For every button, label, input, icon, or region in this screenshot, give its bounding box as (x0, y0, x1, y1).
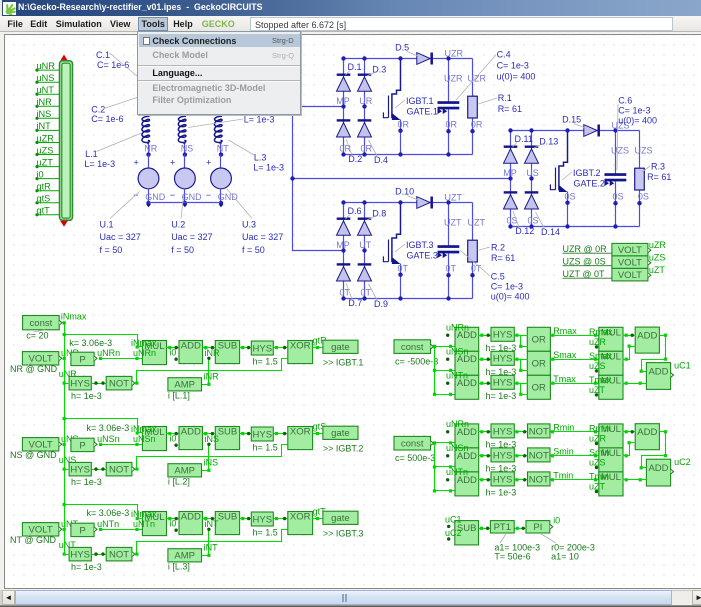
svg-text:f = 50: f = 50 (242, 245, 265, 255)
block ADD (sum2) (646, 459, 670, 486)
svg-text:u(0)= 400: u(0)= 400 (618, 115, 657, 125)
diode D.7 (337, 264, 351, 281)
diode D.8 (358, 219, 372, 236)
svg-text:0T: 0T (398, 263, 409, 273)
svg-text:OR: OR (532, 359, 546, 370)
svg-text:D.2: D.2 (348, 154, 362, 164)
block VOLT NR (22, 352, 58, 365)
block ADD (sum1) (635, 327, 659, 353)
svg-text:C= 1e-6: C= 1e-6 (91, 114, 123, 124)
block XOR (288, 426, 313, 449)
wire: cell3 branch2 (D.8/D.9) (364, 203, 366, 299)
wire: cell3 bottom rail (344, 298, 473, 300)
svg-text:gate: gate (331, 513, 350, 524)
svg-text:UZR: UZR (444, 74, 463, 84)
svg-text:C.4: C.4 (497, 50, 511, 60)
svg-text:AMP: AMP (174, 380, 195, 391)
svg-text:XOR: XOR (290, 340, 311, 351)
svg-text:NOT: NOT (109, 379, 129, 390)
diode D.10 (series) (417, 197, 432, 209)
scope input wire uZT (37, 166, 60, 168)
svg-text:uNR: uNR (37, 61, 56, 71)
svg-text:US: US (526, 168, 539, 178)
wire iNmax feed (65, 505, 143, 519)
scope input wire uNT (37, 93, 60, 95)
svg-text:C.6: C.6 (618, 95, 632, 105)
svg-text:HYS: HYS (493, 474, 513, 485)
svg-text:0R: 0R (471, 119, 483, 129)
wire uN to HYS (65, 530, 70, 555)
svg-text:GND: GND (182, 192, 203, 202)
svg-text:D.7: D.7 (348, 298, 362, 308)
diode D.11 (504, 147, 518, 164)
svg-text:h= 1e-3: h= 1e-3 (71, 562, 102, 572)
block HYS (h=1e-3) (69, 462, 91, 476)
svg-text:UZR @ 0R: UZR @ 0R (563, 244, 608, 254)
wire ADD to HYS (479, 479, 491, 481)
wire HYS to NOT (92, 469, 107, 471)
svg-text:XOR: XOR (290, 511, 311, 522)
svg-text:uNSn: uNSn (133, 434, 156, 444)
wire SUB to HYS (240, 518, 252, 520)
svg-text:i0: i0 (553, 515, 560, 525)
wire const bus (431, 444, 435, 491)
wire: source common rail (149, 202, 221, 204)
svg-text:NS: NS (181, 143, 194, 153)
svg-text:UZR: UZR (445, 48, 464, 58)
svg-text:>> IGBT.2: >> IGBT.2 (323, 444, 364, 454)
wire MUL out to ADD (167, 433, 179, 435)
block const c=20 (23, 316, 60, 330)
svg-text:UZR: UZR (468, 74, 487, 84)
svg-text:GATE.2: GATE.2 (574, 178, 605, 188)
block AMP i[L.2] (168, 464, 202, 477)
diode D.12 (504, 192, 518, 209)
svg-text:PT1: PT1 (494, 522, 511, 533)
wire MUL1 to ADD (623, 335, 636, 337)
svg-text:Smax: Smax (589, 351, 613, 361)
block P (71, 352, 94, 365)
svg-text:NOT: NOT (529, 426, 549, 437)
wire ADD1 out down (642, 432, 666, 468)
svg-text:NOT: NOT (109, 465, 129, 476)
block gate IGBT.2 (323, 426, 358, 439)
svg-text:uC1: uC1 (445, 514, 462, 524)
block VOLT NS (22, 438, 58, 451)
svg-text:L= 1e-3: L= 1e-3 (244, 114, 275, 124)
svg-text:>> IGBT.3: >> IGBT.3 (323, 529, 364, 539)
svg-text:Rmax: Rmax (553, 326, 577, 336)
svg-text:HYS: HYS (253, 429, 273, 440)
wire HYS to OR (515, 335, 528, 337)
wire const to ADD in2 (435, 394, 455, 396)
wire MUL2 to ADD in2 (623, 443, 636, 456)
svg-text:UZT: UZT (444, 218, 462, 228)
block NOT (528, 424, 551, 438)
wire uNTn to MUL (101, 529, 143, 531)
wire ADD out to SUB (203, 433, 216, 435)
svg-text:h= 1.5: h= 1.5 (253, 357, 278, 367)
wire MUL1 to ADD (623, 431, 636, 433)
tools dropdown menu (137, 31, 301, 115)
diode D.13 (525, 147, 539, 164)
svg-text:k= 3.06e-3: k= 3.06e-3 (87, 423, 130, 433)
svg-text:ADD: ADD (648, 366, 668, 377)
svg-text:qtR: qtR (37, 182, 52, 192)
svg-text:+: + (206, 158, 211, 168)
wire: cell2 branch2 (D.13/D.14) (531, 131, 533, 227)
svg-text:uNT: uNT (37, 85, 55, 95)
svg-text:uC2: uC2 (445, 528, 462, 538)
svg-text:uZT: uZT (589, 481, 606, 491)
svg-text:k= 3.06e-3: k= 3.06e-3 (69, 338, 112, 348)
block MUL (Smax x uZ) (599, 351, 623, 375)
IGBT IGBT.3 (383, 203, 400, 263)
svg-text:iNR: iNR (37, 97, 53, 107)
svg-text:gate: gate (331, 342, 350, 353)
svg-text:P: P (79, 525, 85, 536)
wire HYS to XOR (274, 347, 288, 349)
scope input wire i0 (37, 178, 60, 180)
svg-text:MP: MP (336, 240, 350, 250)
svg-text:0S: 0S (528, 216, 539, 226)
svg-text:L.1: L.1 (85, 149, 98, 159)
voltage source U.3 (220, 155, 222, 169)
wire ADD to HYS (479, 455, 491, 457)
wire iNmax bus (63, 323, 65, 555)
svg-text:NOT: NOT (529, 474, 549, 485)
svg-text:uZS: uZS (649, 253, 666, 263)
wire SUB to HYS (240, 433, 252, 435)
wire ADD to HYS (479, 335, 491, 337)
block const (c= 500e-3) (394, 436, 431, 450)
wire XOR to gate (313, 433, 323, 435)
svg-text:f = 50: f = 50 (171, 245, 194, 255)
block PI (526, 521, 550, 534)
block OR (527, 375, 550, 399)
block MUL (Rmin x uZ) (599, 424, 623, 448)
svg-text:D.10: D.10 (395, 186, 414, 196)
block OR (527, 351, 550, 375)
block ADD (+i0) (179, 511, 203, 534)
svg-text:iNmax: iNmax (131, 509, 157, 519)
block ADD (sum1) (635, 424, 659, 450)
svg-text:U.1: U.1 (100, 219, 114, 229)
svg-text:R.1: R.1 (498, 93, 512, 103)
svg-text:i0: i0 (169, 518, 176, 528)
window title bar (0, 0, 701, 16)
svg-text:0S: 0S (507, 216, 518, 226)
svg-text:VOLT: VOLT (618, 245, 642, 256)
block HYS h=1e-3 (491, 424, 514, 438)
wire const to ADD in2 (435, 346, 455, 348)
wire: MP bus vertical (293, 107, 344, 251)
svg-text:HYS: HYS (70, 465, 90, 476)
svg-text:0T: 0T (446, 263, 457, 273)
wire const bus (431, 347, 435, 395)
block NOT (106, 376, 132, 390)
ground (219, 201, 223, 205)
svg-text:UZT: UZT (445, 192, 463, 202)
svg-text:HYS: HYS (253, 514, 273, 525)
wire NOT out to XOR in2 (135, 359, 288, 384)
capacitor branch (448, 203, 450, 246)
svg-text:i0: i0 (169, 433, 176, 443)
svg-text:uNTn: uNTn (446, 370, 468, 380)
svg-text:0S: 0S (638, 191, 649, 201)
block VOLT NT (22, 523, 58, 536)
scope input wire iNT (37, 129, 60, 131)
svg-text:Tmax: Tmax (553, 374, 576, 384)
svg-text:IGBT.2: IGBT.2 (573, 168, 601, 178)
block HYS (h=1.5) (251, 427, 273, 441)
svg-text:D.3: D.3 (372, 64, 386, 74)
svg-text:D.14: D.14 (541, 227, 560, 237)
svg-text:k= 3.06e-3: k= 3.06e-3 (87, 508, 130, 518)
wire HYS to OR (515, 359, 528, 361)
svg-text:uC2: uC2 (674, 457, 691, 467)
wire uNSn to MUL (101, 444, 143, 446)
wire uNRn to MUL (101, 358, 143, 360)
svg-text:IGBT.3: IGBT.3 (406, 240, 434, 250)
wire: cell2 branch1 (D.11/D.12) (510, 131, 512, 227)
svg-text:gate: gate (331, 428, 350, 439)
svg-text:uNTn: uNTn (97, 519, 119, 529)
svg-text:f = 50: f = 50 (100, 245, 123, 255)
svg-text:D.4: D.4 (374, 155, 388, 165)
svg-text:c= -500e-3: c= -500e-3 (395, 357, 438, 367)
svg-text:Tmin: Tmin (589, 471, 609, 481)
svg-text:i0: i0 (37, 169, 44, 179)
svg-text:h= 1e-3: h= 1e-3 (486, 488, 517, 498)
block HYS h=1e-3 (491, 351, 514, 365)
block AMP i[L.3] (168, 549, 202, 562)
svg-text:OR: OR (532, 335, 546, 346)
block SUB (-iN) (215, 426, 239, 449)
svg-text:AMP: AMP (174, 466, 195, 477)
svg-text:h= 1e-3: h= 1e-3 (71, 477, 102, 487)
svg-text:uNTn: uNTn (446, 467, 468, 477)
svg-text:SUB: SUB (218, 511, 238, 522)
svg-text:NR: NR (144, 143, 157, 153)
ground (183, 201, 187, 205)
svg-text:HYS: HYS (493, 450, 513, 461)
wire MUL out to ADD (167, 347, 179, 349)
inductor L.3 (214, 116, 222, 144)
svg-text:P: P (79, 354, 85, 365)
wire NOT out to XOR in2 (135, 445, 288, 470)
svg-text:0T: 0T (361, 288, 372, 298)
svg-text:c= 500e-3: c= 500e-3 (395, 453, 435, 463)
block ADD (uNTn) (455, 472, 479, 496)
svg-text:a1= 10: a1= 10 (551, 551, 579, 561)
svg-text:+: + (170, 158, 175, 168)
block MUL (142, 341, 166, 365)
svg-text:u(0)= 400: u(0)= 400 (497, 72, 536, 82)
wire MUL2 to ADD in2 (623, 347, 636, 360)
scope input wire qtR (37, 190, 60, 192)
wire HYS to NOT (515, 455, 528, 457)
svg-text:C.5: C.5 (491, 271, 505, 281)
svg-text:Smax: Smax (553, 350, 577, 360)
wire const to ADD in2 (435, 466, 455, 468)
svg-text:C.1: C.1 (96, 50, 110, 60)
svg-text:uZS: uZS (37, 145, 54, 155)
wire iNS feedback (202, 445, 209, 471)
wire Rmin to MUL (551, 431, 599, 433)
svg-text:const: const (401, 439, 424, 450)
svg-text:NOT: NOT (529, 450, 549, 461)
inductor L.1 (142, 116, 150, 144)
simulation status field (250, 17, 673, 31)
wire XOR to gate (313, 518, 323, 520)
svg-text:MP: MP (336, 96, 350, 106)
svg-text:P: P (79, 440, 85, 451)
wire MUL3 to ADD2 (623, 479, 647, 481)
diode D.2 (337, 120, 351, 137)
svg-text:qtS: qtS (37, 194, 51, 204)
wire ADD to HYS (479, 383, 491, 385)
block const (c= -500e-3) (394, 340, 431, 354)
svg-text:UZT: UZT (468, 218, 486, 228)
svg-text:iNR: iNR (204, 372, 219, 382)
svg-text:uZT: uZT (649, 265, 666, 275)
svg-text:Uac = 327: Uac = 327 (100, 232, 141, 242)
capacitor branch (448, 59, 450, 102)
svg-text:UR: UR (359, 96, 372, 106)
block AMP i[L.1] (168, 378, 202, 391)
svg-text:NOT: NOT (109, 550, 129, 561)
svg-text:uZS: uZS (589, 457, 606, 467)
svg-text:VOLT: VOLT (618, 258, 642, 269)
svg-text:0R: 0R (398, 119, 410, 129)
wire HYS to NOT (515, 431, 528, 433)
wire HYS to XOR (274, 518, 288, 520)
wire: cell3 top rail (344, 202, 473, 204)
capacitor branch (615, 131, 617, 174)
block XOR (288, 511, 313, 534)
block NOT (528, 472, 551, 486)
svg-text:c= 20: c= 20 (26, 331, 48, 341)
block MUL (Tmax x uZ) (599, 375, 623, 399)
svg-text:NT @ GND: NT @ GND (10, 535, 56, 545)
svg-text:C= 1e-3: C= 1e-3 (497, 61, 529, 71)
wire iNR feedback (202, 359, 209, 385)
svg-text:Rmax: Rmax (589, 327, 613, 337)
wire uN to HYS (65, 359, 70, 384)
scope input wire uNR (37, 69, 60, 71)
wire HYS to NOT (92, 554, 107, 556)
block MUL (142, 427, 166, 451)
svg-text:iNT: iNT (37, 121, 52, 131)
scope input wire uZS (37, 154, 60, 156)
diode D.6 (337, 219, 351, 236)
resistor branch (472, 59, 474, 97)
svg-text:uZR: uZR (589, 337, 607, 347)
block gate IGBT.3 (323, 511, 358, 524)
svg-text:uNRn: uNRn (446, 419, 469, 429)
svg-text:D.15: D.15 (562, 114, 581, 124)
block HYS h=1e-3 (491, 448, 514, 462)
block ADD (uNSn) (455, 448, 479, 472)
svg-text:uNSn: uNSn (446, 346, 469, 356)
IGBT IGBT.1 (383, 59, 400, 119)
svg-text:ADD: ADD (637, 427, 657, 438)
scope block SC.1 (60, 55, 68, 61)
wire HYS to NOT (515, 479, 528, 481)
diode D.1 (337, 75, 351, 92)
inductor L.2 (178, 116, 186, 144)
svg-text:T= 50e-6: T= 50e-6 (494, 551, 530, 561)
svg-text:i0: i0 (169, 347, 176, 357)
wire coil to node NS (184, 144, 186, 155)
wire NOT out to XOR in2 (135, 530, 288, 555)
svg-text:ADD: ADD (181, 511, 201, 522)
block gate IGBT.1 (323, 340, 358, 353)
svg-text:uNSn: uNSn (97, 434, 120, 444)
scope input wire iNR (37, 105, 60, 107)
svg-text:Smin: Smin (589, 447, 610, 457)
block HYS h=1e-3 (491, 327, 514, 341)
svg-text:MP: MP (503, 168, 517, 178)
svg-text:i [L.3]: i [L.3] (168, 562, 190, 572)
svg-text:D.12: D.12 (515, 226, 534, 236)
block HYS (h=1.5) (251, 512, 273, 526)
svg-text:Tmax: Tmax (589, 375, 612, 385)
block MUL (Smin x uZ) (599, 448, 623, 472)
wire PT1 to PI (515, 528, 527, 530)
block ADD (sum2) (646, 363, 670, 390)
svg-text:ADD: ADD (648, 463, 668, 474)
svg-text:D.11: D.11 (515, 134, 533, 144)
svg-text:iNmax: iNmax (131, 338, 157, 348)
svg-text:uZS: uZS (589, 361, 606, 371)
svg-text:R= 61: R= 61 (498, 104, 522, 114)
diode D.5 (series) (417, 53, 432, 65)
block HYS h=1e-3 (491, 375, 514, 389)
block XOR (288, 340, 313, 363)
block VOLT (UZT @ 0T) (612, 268, 648, 281)
wire XOR to gate (313, 347, 323, 349)
scope input wire iNS (37, 117, 60, 119)
svg-text:Uac = 327: Uac = 327 (242, 232, 283, 242)
svg-text:C.2: C.2 (91, 104, 105, 114)
svg-text:HYS: HYS (493, 426, 513, 437)
wire iNT feedback (202, 530, 209, 556)
svg-text:uZT: uZT (37, 157, 54, 167)
svg-text:Rmin: Rmin (589, 423, 610, 433)
svg-text:i [L.1]: i [L.1] (168, 391, 190, 401)
wire ADD to HYS (479, 359, 491, 361)
svg-text:XOR: XOR (290, 426, 311, 437)
block ADD (+i0) (179, 426, 203, 449)
svg-text:R= 61: R= 61 (491, 253, 515, 263)
voltage source U.2 (184, 155, 186, 169)
svg-text:C= 1e-3: C= 1e-3 (618, 105, 650, 115)
svg-text:D.5: D.5 (395, 42, 409, 52)
svg-text:uZR: uZR (37, 133, 55, 143)
svg-text:NS @ GND: NS @ GND (10, 450, 57, 460)
svg-text:uNTn: uNTn (133, 519, 155, 529)
svg-text:VOLT: VOLT (618, 270, 642, 281)
block ADD (uNRn) (455, 327, 479, 351)
resistor branch (472, 203, 474, 241)
resistor branch (639, 131, 641, 169)
block SUB (-iN) (215, 340, 239, 363)
svg-text:iNS: iNS (204, 458, 219, 468)
svg-text:HYS: HYS (493, 330, 513, 341)
svg-text:uNRn: uNRn (133, 348, 156, 358)
